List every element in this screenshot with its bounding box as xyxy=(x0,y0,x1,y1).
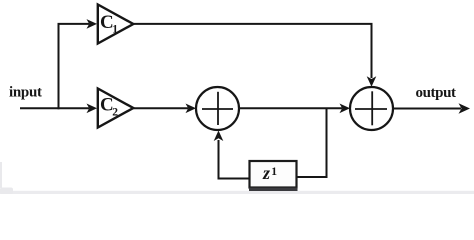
wire: down into adder S2 top xyxy=(371,24,373,78)
wire: C2 output to adder S1 xyxy=(133,107,188,109)
svg-text:input: input xyxy=(9,85,42,101)
wire: C1 output horizontal xyxy=(133,23,372,25)
bottom-left gray blotch xyxy=(0,188,13,195)
bottom gray band xyxy=(0,191,474,194)
wire: S1 output to adder S2 xyxy=(239,107,342,109)
arrowhead into S2 left xyxy=(340,104,351,114)
svg-text:z: z xyxy=(262,163,270,183)
wire: output line xyxy=(393,108,461,110)
arrowhead into C2 xyxy=(87,104,98,114)
wire: top horizontal into C1 xyxy=(58,23,90,25)
wire: branch down to delay xyxy=(326,108,328,178)
wire: branch vertical up xyxy=(58,24,60,109)
arrowhead output xyxy=(459,103,471,114)
amplifier C2 (triangle) xyxy=(98,89,134,128)
left edge gray strip xyxy=(0,162,2,188)
svg-text:output: output xyxy=(416,85,457,101)
svg-text:1: 1 xyxy=(112,23,118,35)
svg-text:2: 2 xyxy=(112,106,118,118)
wire: delay output left xyxy=(218,178,250,180)
delay element z^-1 xyxy=(249,161,298,189)
arrowhead into S2 top xyxy=(367,76,377,87)
wire: up into S1 bottom xyxy=(218,140,220,180)
amplifier C1 (triangle) xyxy=(98,5,134,44)
svg-text:1: 1 xyxy=(271,165,277,178)
wire: input horizontal line xyxy=(20,107,89,109)
adder S1 (summing junction) xyxy=(196,87,239,130)
adder S2 (summing junction) xyxy=(350,87,393,130)
arrowhead into C1 xyxy=(87,19,98,29)
arrowhead into S1 bottom xyxy=(214,131,224,142)
wire: into delay box right side xyxy=(296,176,328,178)
arrowhead into S1 left xyxy=(186,104,197,114)
